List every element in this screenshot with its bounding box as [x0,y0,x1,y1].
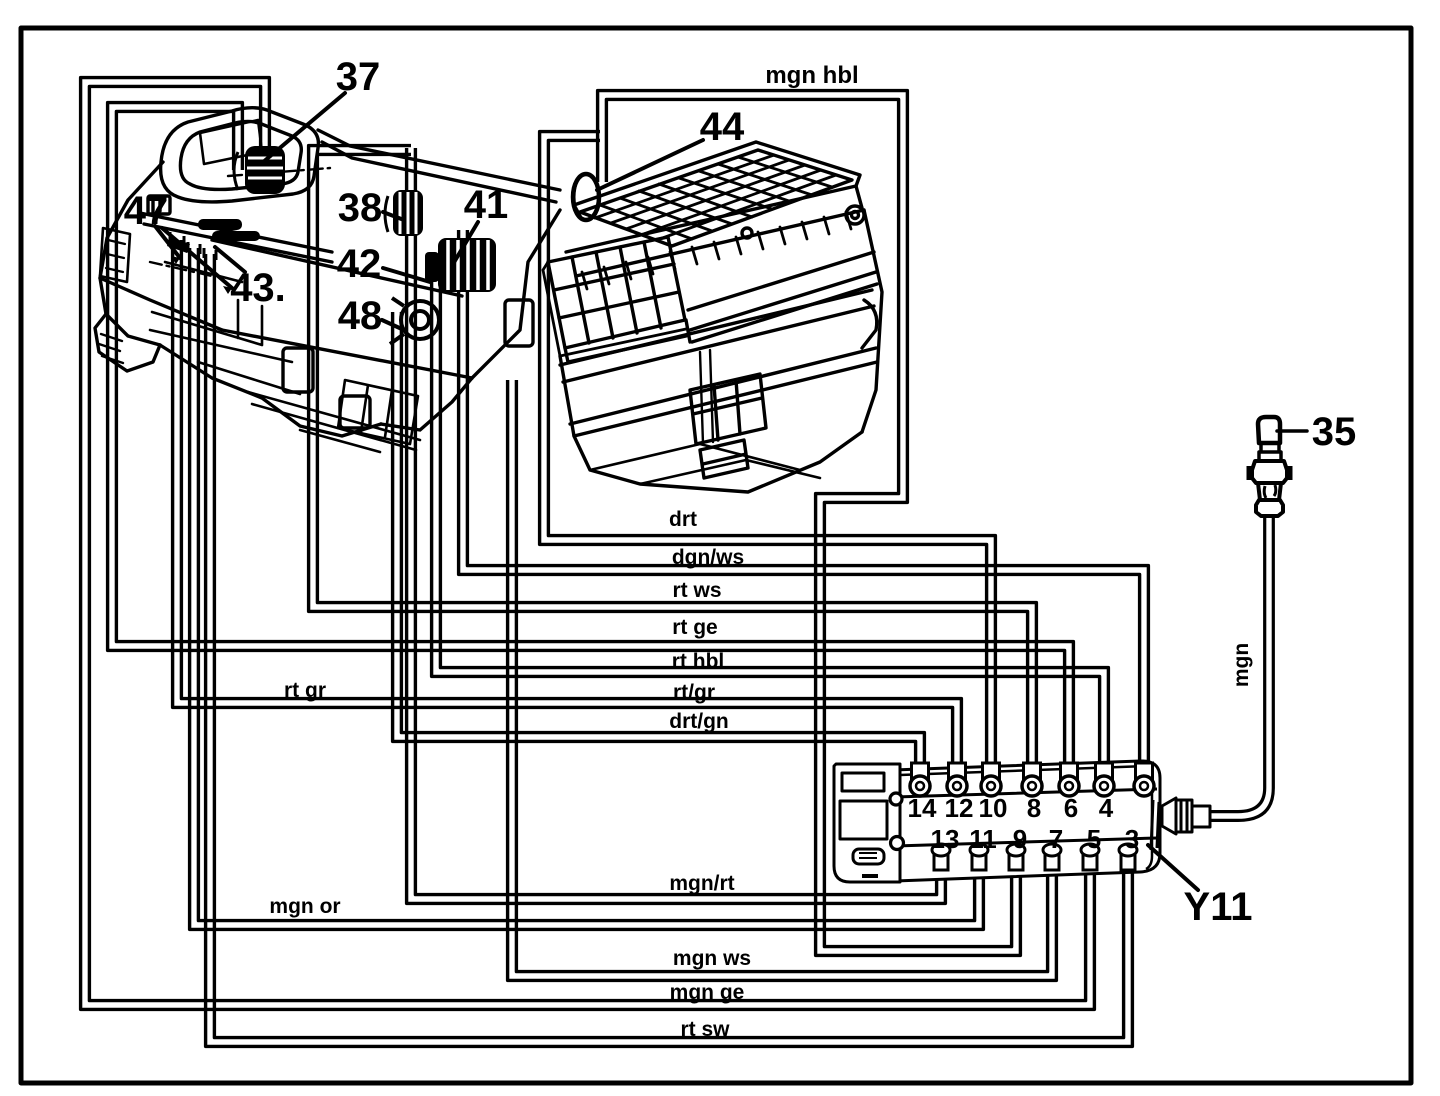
check valve 35 [1249,417,1290,516]
svg-text:rt sw: rt sw [680,1018,730,1041]
svg-text:48: 48 [338,294,383,338]
leader 37 [262,93,345,163]
vacuum actuator 37 [234,146,285,194]
svg-text:42: 42 [337,242,382,286]
svg-text:41: 41 [464,183,509,227]
leader 41 [453,222,478,264]
hose mgn hbl (evaporator box to port 9) [598,91,1021,956]
svg-text:mgn or: mgn or [269,895,340,918]
leader arrowheads 47 [171,256,232,294]
hose rt ge (actuator 37 to port 6) [108,103,1074,786]
Y11 top ports [910,763,1154,796]
svg-text:mgn ws: mgn ws [673,947,751,970]
svg-text:mgn/rt: mgn/rt [669,872,734,895]
svg-text:14: 14 [908,793,937,823]
svg-text:3: 3 [1125,824,1139,854]
svg-text:rt hbl: rt hbl [672,650,725,673]
hose mgn ws (port 7) [508,380,1057,980]
hose rt gr (port 12) [173,240,962,786]
hose rt sw (port 3) [206,254,1133,1046]
leader 44 [597,140,703,190]
hose dgn ws (right top port) [459,230,1149,786]
svg-text:7: 7 [1049,824,1063,854]
leader Y11 [1148,845,1198,890]
svg-text:10: 10 [979,793,1008,823]
leader 48 [382,320,404,330]
svg-text:drt: drt [669,508,697,531]
vacuum actuator 38 [385,190,423,236]
svg-text:11: 11 [969,824,997,854]
hose mgn or (port 11) [190,248,984,929]
svg-text:mgn: mgn [1230,643,1253,687]
hose drt (port 10) [540,132,996,786]
svg-text:5: 5 [1087,824,1101,854]
svg-text:4: 4 [1099,793,1114,823]
svg-text:dgn/ws: dgn/ws [672,546,744,569]
svg-text:35: 35 [1312,410,1357,454]
svg-text:rt ge: rt ge [672,616,718,639]
svg-text:rt ws: rt ws [672,579,721,602]
Y11 bottom ports [932,844,1137,870]
vacuum actuator 48 [390,298,439,344]
hose mgn ge (actuator 37 loop to port 5) [81,78,1095,1010]
leader 38 [383,212,404,220]
hose ring 44 [573,174,599,220]
evaporator assembly 44 [543,142,882,492]
vacuum actuators 41 / 42 [425,238,496,292]
hose mgn (valve 35 to Y11) [1208,516,1273,820]
svg-text:rt/gr: rt/gr [673,681,715,704]
svg-text:12: 12 [945,793,974,823]
solenoid valve block Y11 body [893,761,1160,881]
svg-text:43.: 43. [230,266,286,310]
heater box assembly [95,108,560,452]
svg-text:mgn hbl: mgn hbl [765,62,858,89]
svg-text:44: 44 [700,105,745,149]
svg-text:13: 13 [931,824,960,854]
leader 35 [1277,429,1307,433]
svg-text:9: 9 [1013,824,1027,854]
svg-text:38: 38 [338,186,383,230]
hose rt ws (port 8) [309,146,1037,786]
hose rt hbl (port 4) [432,252,1109,786]
svg-text:47: 47 [124,189,169,233]
hose drt gn (port 14) [393,312,925,786]
hose mgn rt (port 13) [407,148,946,903]
Y11 outlet connector [1151,798,1210,850]
svg-text:Y11: Y11 [1184,885,1253,929]
svg-text:drt/gn: drt/gn [669,710,728,733]
leader 42 [383,268,430,282]
svg-text:mgn ge: mgn ge [670,981,745,1004]
Y11 mounting bracket [834,764,900,882]
svg-text:8: 8 [1027,793,1041,823]
leaders 47 [155,226,232,288]
leader 43 [215,247,245,272]
fitting 47 / 43 pipes [167,219,260,253]
svg-text:37: 37 [336,55,381,99]
svg-text:rt gr: rt gr [284,679,326,702]
svg-text:6: 6 [1064,793,1078,823]
